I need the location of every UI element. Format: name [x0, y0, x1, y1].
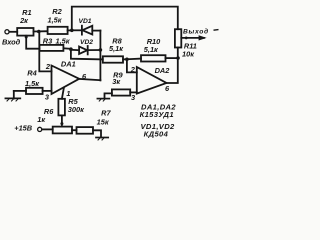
wire R3 to node C [63, 47, 71, 50]
svg-text:2к: 2к [19, 16, 29, 25]
svg-text:3к: 3к [112, 77, 121, 86]
svg-text:1,5к: 1,5к [55, 36, 70, 45]
wire under R1 to R3 [26, 36, 39, 49]
svg-text:+15В: +15В [14, 124, 33, 133]
svg-text:К153УД1: К153УД1 [140, 110, 174, 119]
wire R1 to R2 [34, 30, 48, 32]
wire DA1 pin 1 to R5 [62, 88, 64, 99]
node B [70, 29, 74, 33]
diode VD2 [71, 46, 101, 54]
node F [176, 56, 180, 60]
svg-text:5,1к: 5,1к [144, 45, 159, 54]
node A [37, 30, 41, 34]
wire R4 to DA1 pin 3 [43, 90, 52, 92]
dash after Выход [214, 29, 219, 32]
wire R9 to DA2 pin 3 [130, 91, 137, 93]
wire R6 to R7 [72, 129, 77, 131]
svg-text:R6: R6 [44, 107, 54, 116]
svg-text:1к: 1к [37, 115, 46, 124]
resistor R6 [53, 127, 72, 134]
wire R11 bottom / DA2 output [167, 48, 178, 84]
svg-text:1,5к: 1,5к [25, 79, 40, 88]
wire ground to R4 [14, 90, 26, 92]
ground (R7) [96, 138, 108, 141]
svg-text:3: 3 [45, 92, 50, 101]
node C [69, 47, 73, 51]
svg-text:3: 3 [131, 93, 136, 102]
svg-text:1,5к: 1,5к [47, 15, 62, 24]
ground (R4) [5, 91, 20, 101]
wire input to R1 [9, 31, 17, 33]
svg-text:Вход: Вход [2, 37, 21, 46]
svg-text:R3: R3 [43, 36, 53, 45]
resistor R7 [77, 127, 94, 134]
junction VD2 cathode [99, 48, 103, 52]
diode VD1 [72, 26, 101, 35]
op-amp DA1 [52, 66, 80, 95]
resistor R2 [48, 27, 68, 34]
wire R5 to R6 node [61, 115, 63, 125]
svg-text:DA1: DA1 [61, 60, 76, 69]
wire node C to R8 [71, 49, 103, 59]
svg-text:R4: R4 [27, 69, 36, 78]
node E [125, 58, 129, 62]
resistor R9 [112, 89, 130, 95]
wire R7 to ground [93, 130, 101, 137]
wire R10 to node F [166, 57, 179, 59]
node under R1 [25, 36, 28, 39]
svg-text:VD2: VD2 [80, 39, 93, 46]
svg-text:15к: 15к [97, 117, 110, 126]
svg-text:6: 6 [165, 84, 170, 93]
wire R8 to R10 [123, 58, 141, 61]
+15V terminal [38, 127, 42, 131]
resistor R3 [39, 45, 63, 51]
resistor R5 [58, 99, 65, 116]
wire R2 to node B [68, 29, 72, 31]
resistor R8 [103, 56, 123, 62]
resistor R11 [175, 29, 181, 47]
svg-text:Выход: Выход [183, 28, 209, 36]
wire node A to DA1 pin 2 [39, 32, 51, 72]
svg-text:5,1к: 5,1к [109, 44, 124, 53]
svg-text:10к: 10к [182, 50, 195, 59]
output arrow [181, 37, 204, 39]
wire DA1 output vertical [99, 31, 101, 81]
resistor R1 [17, 28, 33, 36]
svg-text:КД504: КД504 [144, 130, 169, 139]
svg-text:300к: 300к [68, 105, 85, 114]
wire +15V to R6 [42, 128, 53, 130]
svg-text:DA2: DA2 [155, 66, 171, 75]
wire node E to DA2 pin 2 [127, 59, 137, 72]
wire top rail [72, 7, 178, 31]
svg-text:VD1: VD1 [78, 18, 91, 25]
op-amp DA2 [137, 67, 167, 94]
svg-text:2: 2 [45, 62, 51, 71]
resistor R10 [141, 55, 166, 61]
wire DA1 output horizontal [79, 79, 100, 80]
ground (R9) [97, 93, 112, 101]
input terminal [5, 30, 9, 34]
resistor R4 [26, 88, 43, 94]
svg-text:2: 2 [130, 65, 136, 74]
